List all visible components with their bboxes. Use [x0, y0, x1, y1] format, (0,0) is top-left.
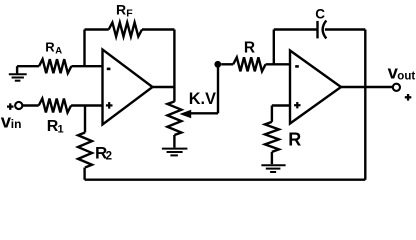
svg-text:R: R [116, 2, 126, 18]
svg-text:out: out [397, 70, 415, 82]
label R (input) [244, 39, 255, 56]
wire R to op-amp U2 inverting input [266, 63, 290, 65]
capacitor C [318, 21, 327, 39]
wire R2 bottom to rail [83, 168, 85, 180]
label C [315, 7, 325, 22]
wire C feedback left leg [273, 30, 275, 65]
svg-text:2: 2 [106, 151, 112, 163]
wire wiper up to node [217, 64, 219, 113]
plus sign U2 [294, 102, 300, 108]
plus sign at vin [7, 103, 14, 110]
label RF [116, 2, 133, 20]
resistor RF [109, 23, 142, 37]
wire C top right [325, 28, 365, 30]
ground (U2 non-inverting) [261, 165, 285, 172]
svg-text:R: R [288, 130, 301, 150]
wire U1 output [153, 86, 175, 88]
label K.V [189, 90, 216, 108]
wire right leg (C feedback down to output and rail) [364, 30, 366, 180]
label R2 [95, 143, 112, 162]
svg-text:R: R [45, 40, 55, 55]
wire bottom rail [85, 178, 366, 180]
svg-text:1: 1 [58, 124, 64, 136]
wiper arrowhead [180, 110, 192, 118]
resistor R (grounded) [265, 122, 279, 152]
terminal vout [393, 84, 400, 91]
wire feedback left leg (node to RF) [83, 30, 85, 67]
resistor R1 [39, 99, 71, 113]
svg-text:in: in [11, 117, 22, 131]
plus sign U1 [106, 102, 113, 109]
wire ground to RA [17, 65, 39, 67]
terminal vin [15, 102, 22, 109]
svg-text:A: A [55, 46, 62, 57]
label vin [1, 110, 22, 131]
plus sign at vout [405, 94, 412, 101]
wire U2 non-inverting input to R [272, 104, 290, 106]
resistor R2 [78, 133, 92, 168]
wire node down to R2 [84, 106, 86, 133]
wire node to R [221, 63, 233, 65]
label R (grounded) [288, 130, 301, 150]
op-amp U2 [290, 51, 341, 124]
wire pot to ground [173, 135, 175, 148]
minus sign U2 [295, 65, 299, 68]
resistor RA [39, 59, 71, 73]
label vout [388, 62, 416, 83]
ground (potentiometer) [162, 149, 188, 156]
svg-text:R: R [244, 39, 255, 56]
svg-text:F: F [126, 8, 133, 20]
wire down to R [271, 106, 273, 122]
resistor R (input of U2) [233, 57, 265, 71]
potentiometer K.V [167, 102, 181, 135]
node junction dot [214, 61, 221, 68]
wire C top left [274, 28, 318, 30]
wire vin to R1 [22, 104, 38, 106]
wire RA to op-amp U1 inverting input [71, 65, 102, 67]
wire RF top left [85, 28, 109, 30]
minus sign U1 [107, 68, 111, 71]
label R1 [47, 118, 64, 136]
svg-text:K.V: K.V [189, 90, 216, 108]
svg-text:C: C [315, 7, 325, 22]
wire R1 to op-amp U1 non-inverting input [71, 104, 102, 106]
wire U2 output [341, 86, 393, 88]
ground (left, input bias) [9, 66, 27, 81]
wire R to ground [271, 152, 273, 164]
op-amp U1 [103, 50, 153, 125]
wire feedback right leg down to potentiometer [173, 30, 175, 102]
wire RF top right [142, 28, 174, 30]
label RA [45, 40, 62, 57]
wiper arrow wire [191, 112, 219, 114]
